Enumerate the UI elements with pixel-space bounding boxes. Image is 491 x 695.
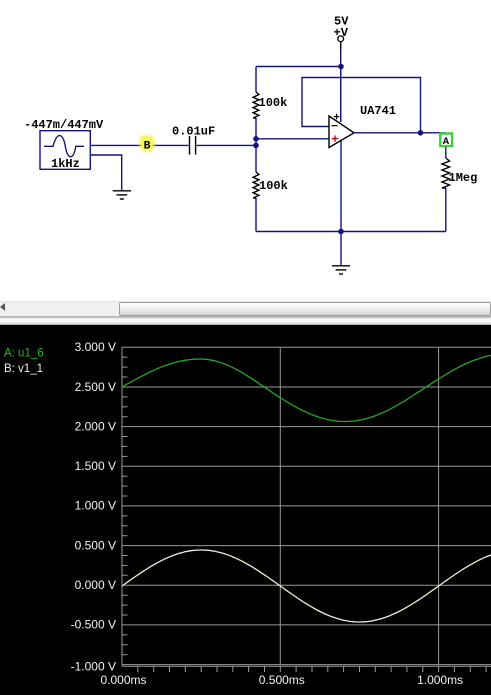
svg-text:2.000 V: 2.000 V [75, 419, 116, 433]
svg-text:0.500ms: 0.500ms [259, 673, 305, 687]
svg-text:-447m/447mV: -447m/447mV [24, 118, 104, 132]
svg-text:B: B [144, 140, 151, 152]
svg-text:1.500 V: 1.500 V [75, 459, 116, 473]
svg-text:B: v1_1: B: v1_1 [4, 363, 43, 375]
svg-text:A: u1_6: A: u1_6 [4, 348, 44, 360]
svg-text:0.500 V: 0.500 V [75, 538, 116, 552]
svg-text:1kHz: 1kHz [51, 157, 80, 171]
svg-text:UA741: UA741 [360, 104, 396, 118]
svg-text:1Meg: 1Meg [449, 171, 478, 185]
svg-text:A: A [443, 136, 450, 148]
svg-text:2.500 V: 2.500 V [75, 380, 116, 394]
svg-text:+V: +V [334, 26, 349, 40]
svg-text:-1.000 V: -1.000 V [71, 659, 116, 673]
svg-text:-0.500 V: -0.500 V [71, 618, 116, 632]
svg-text:1.000 V: 1.000 V [75, 499, 116, 513]
svg-text:3.000 V: 3.000 V [75, 340, 116, 354]
svg-text:0.000ms: 0.000ms [100, 673, 146, 687]
svg-text:0.000 V: 0.000 V [75, 578, 116, 592]
svg-text:100k: 100k [259, 96, 288, 110]
svg-text:0.01uF: 0.01uF [172, 125, 215, 139]
svg-text:1.000ms: 1.000ms [417, 673, 463, 687]
svg-text:100k: 100k [259, 179, 288, 193]
